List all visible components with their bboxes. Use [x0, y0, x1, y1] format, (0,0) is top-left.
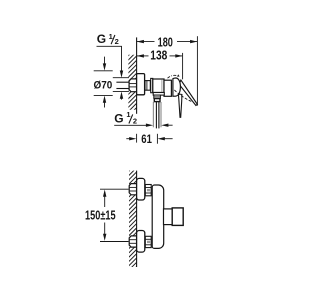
outlet neck (bottom view) — [164, 209, 173, 225]
union nut ring on body — [151, 78, 153, 92]
supply nipple behind wall (two horizontal lines) — [116, 81, 129, 83]
wall face line / dimension extension line (top view) — [136, 37, 138, 113]
top escutcheon flange (bottom view) — [137, 178, 145, 200]
top connector nut (bottom view) — [145, 185, 151, 196]
outlet extension line for 61 — [156, 134, 158, 144]
bottom union nut behind wall (hex) — [129, 236, 136, 247]
G 1/2 top leader arrow (points at nut top edge) — [120, 71, 123, 78]
dimension 138: extension line right (to handle dome) — [182, 53, 184, 79]
wall face line (bottom view) — [136, 171, 138, 267]
valve body (top view) — [153, 79, 164, 93]
G 1/2 bottom leader and thread arrows — [114, 124, 146, 126]
dimension 150±15 line and arrows — [104, 192, 106, 207]
dimension 138 line and arrows — [137, 55, 149, 57]
outlet thread nipple — [154, 99, 160, 102]
dimension 61 line, tails and arrows — [126, 138, 130, 140]
svg-text:2: 2 — [133, 117, 137, 126]
svg-text:1: 1 — [126, 110, 130, 119]
outlet thread OD lines (outer, lighter) — [152, 102, 154, 127]
dia 70 arrow bottom — [104, 102, 106, 108]
svg-text:138: 138 — [150, 49, 167, 63]
connector between flange and body — [145, 81, 150, 91]
svg-text:G: G — [114, 111, 123, 125]
lever handle upper blade — [179, 80, 197, 105]
outlet step 1 below body — [153, 93, 164, 96]
escutcheon flange (top view) — [137, 74, 145, 95]
svg-text:150±15: 150±15 — [85, 208, 116, 222]
outlet step 2 — [154, 95, 161, 98]
lever swing dashed arc — [174, 90, 191, 102]
bottom escutcheon flange (bottom view) — [137, 231, 145, 253]
cartridge section — [164, 80, 171, 96]
outlet tube lines going down (inner) — [155, 102, 157, 128]
lever handle lower arm — [178, 94, 182, 117]
svg-text:180: 180 — [158, 35, 173, 49]
top supply pipe line / extension — [100, 188, 129, 190]
handle rotation dash-dot arc (above dome) — [168, 75, 180, 78]
bottom connector nut (bottom view) — [145, 236, 151, 247]
bottom supply pipe line / extension — [100, 241, 129, 243]
outlet cap (bottom view) — [172, 208, 183, 226]
wall hatching (top view) — [121, 47, 150, 119]
svg-text:1: 1 — [109, 32, 113, 41]
nut bottom arrow (points up at nut bottom edge) — [120, 92, 123, 99]
handle dome cap — [173, 78, 181, 96]
svg-text:61: 61 — [141, 132, 152, 146]
G 1/2 top leader line — [97, 46, 122, 71]
dimension 180: extension line right — [196, 36, 198, 105]
dia 70 extension line bottom — [94, 94, 113, 96]
nut bottom edge extension segment — [113, 90, 129, 92]
dia 70 arrow top — [104, 57, 106, 65]
top union nut behind wall (hex) — [129, 184, 136, 195]
svg-text:Ø70: Ø70 — [94, 80, 113, 92]
union nut behind wall (top view) — [129, 79, 137, 92]
svg-text:2: 2 — [115, 37, 119, 46]
svg-text:G: G — [97, 32, 106, 46]
wall hatching (bottom view) — [122, 162, 151, 273]
dimension 180 line and arrows — [137, 41, 155, 43]
dia 70 extension line top — [94, 70, 113, 72]
nut top edge extension segment — [113, 77, 129, 79]
wall face extension line for 61 — [136, 134, 138, 143]
faucet body (bottom view) — [152, 185, 164, 248]
